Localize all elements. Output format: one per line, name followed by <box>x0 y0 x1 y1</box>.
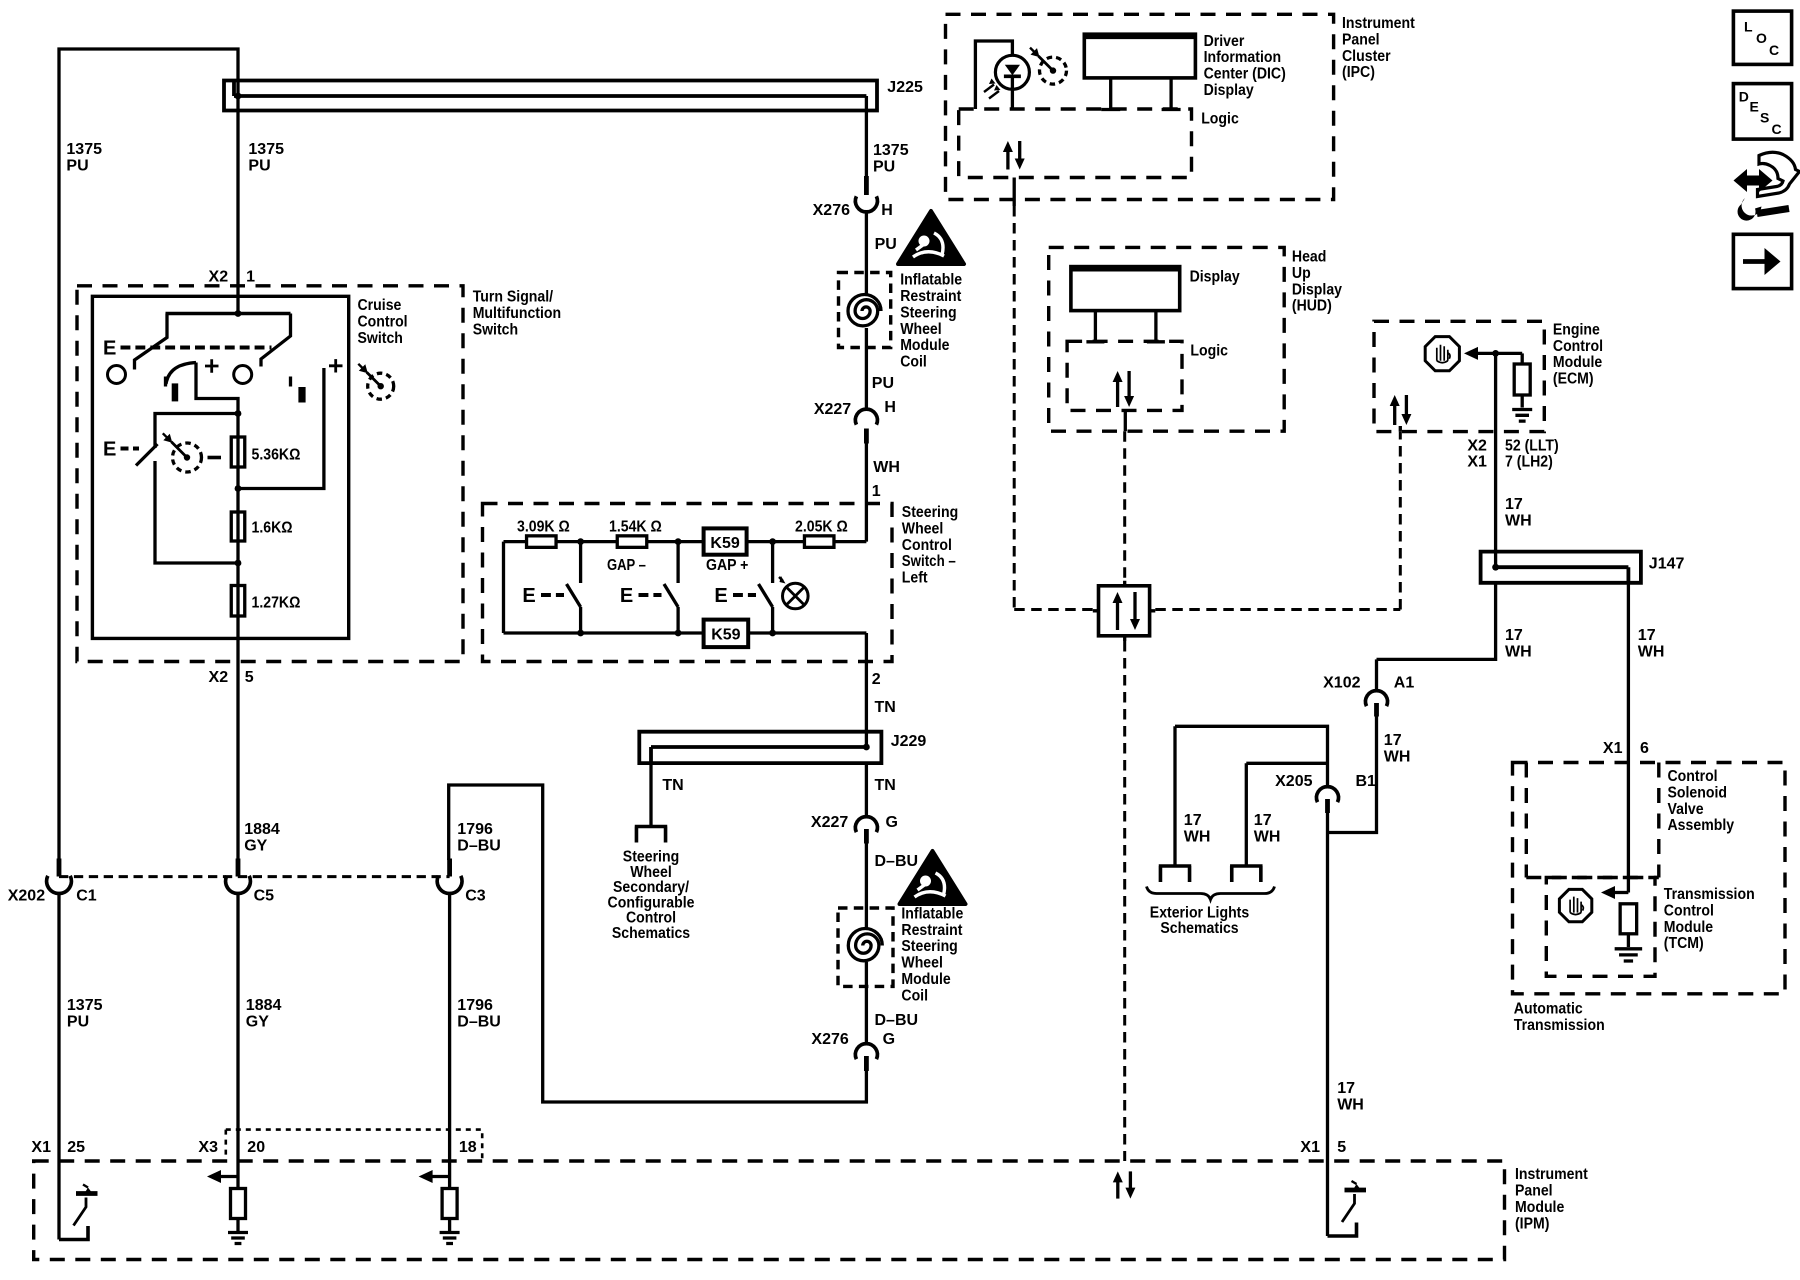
momentary switch (IPM right) <box>1326 1161 1329 1236</box>
switch 1 (set/coast) <box>579 542 582 583</box>
svg-text:X2: X2 <box>209 269 229 286</box>
svg-text:S: S <box>1760 110 1769 126</box>
svg-text:E: E <box>103 439 116 461</box>
connector C1 pin <box>57 859 62 877</box>
serial data line IPC down <box>1013 206 1016 610</box>
svg-text:D–BU: D–BU <box>875 853 919 870</box>
connector C5 pin <box>236 859 241 877</box>
dashed E link (switch 1) <box>541 593 564 597</box>
pull-down resistor (pin 20) <box>231 1189 246 1219</box>
svg-text:2: 2 <box>872 671 881 688</box>
svg-text:Head: Head <box>1292 249 1327 266</box>
svg-text:Logic: Logic <box>1190 343 1228 360</box>
svg-text:TN: TN <box>662 777 683 794</box>
svg-text:Switch: Switch <box>473 321 518 338</box>
junction on J229 <box>863 744 870 751</box>
cruise gauge icon (turn signal area) <box>368 373 394 399</box>
IPM input arrow (pin 18) <box>431 1175 450 1178</box>
svg-text:Up: Up <box>1292 265 1311 282</box>
svg-text:Solenoid: Solenoid <box>1668 784 1728 801</box>
switch 3 (gap +) <box>771 542 774 583</box>
coil spiral (bottom) <box>848 929 882 961</box>
svg-text:Instrument: Instrument <box>1342 15 1415 32</box>
exterior lights feed second line <box>1246 762 1327 765</box>
svg-text:Transmission: Transmission <box>1514 1017 1605 1034</box>
svg-text:17: 17 <box>1505 496 1523 513</box>
svg-text:A1: A1 <box>1394 675 1415 692</box>
stop lamp (hand) icon TCM <box>1559 889 1591 921</box>
svg-text:WH: WH <box>873 459 900 476</box>
cruise gauge icon (in box) <box>173 443 202 472</box>
turn signal/multifunction switch dashed box <box>77 286 463 662</box>
serial data line to IPM <box>1123 641 1126 1161</box>
driver information center display rectangle <box>1084 34 1195 78</box>
svg-text:(ECM): (ECM) <box>1553 371 1594 388</box>
lever arc (set/coast actuator) <box>164 377 167 387</box>
svg-text:K59: K59 <box>710 535 739 552</box>
svg-text:17: 17 <box>1384 732 1402 749</box>
svg-text:X227: X227 <box>814 401 851 418</box>
junction bottom bus a <box>577 630 584 637</box>
serial data junction box <box>1099 586 1150 636</box>
warning triangle (inflatable restraint, top) <box>898 211 964 264</box>
label + (right) <box>329 359 343 372</box>
wire D-BU to lower coil <box>865 844 868 930</box>
svg-text:Module: Module <box>900 337 949 354</box>
wire left side bus link <box>502 542 505 633</box>
connector C3 pin <box>447 859 452 877</box>
serial data arrows (HUD logic) <box>1116 380 1119 407</box>
svg-text:Panel: Panel <box>1342 31 1380 48</box>
svg-text:C3: C3 <box>465 888 486 905</box>
contact bar (mid) <box>172 383 179 401</box>
serial data line HUD down <box>1123 431 1126 586</box>
svg-text:C: C <box>1769 42 1779 58</box>
junction tap b <box>235 485 242 492</box>
junction top bus c <box>769 538 776 545</box>
junction tap c <box>235 560 242 567</box>
svg-text:WH: WH <box>1184 828 1211 845</box>
svg-text:Assembly: Assembly <box>1668 817 1735 834</box>
svg-text:X202: X202 <box>8 888 45 905</box>
serial data line corner to data box <box>1014 608 1098 611</box>
contact circle (left) <box>108 366 126 384</box>
instrument panel cluster (IPC) dashed box <box>946 14 1334 199</box>
wire coil to X276-G <box>865 962 868 1044</box>
HUD logic dashed box <box>1067 341 1182 410</box>
junction on J147 <box>1492 564 1499 571</box>
wire from + contact to resistor tap <box>238 368 324 489</box>
svg-text:C: C <box>1772 121 1782 137</box>
svg-text:PU: PU <box>66 157 88 174</box>
contact tick (right) <box>289 377 292 387</box>
svg-text:Coil: Coil <box>901 987 928 1004</box>
svg-text:Restraint: Restraint <box>901 922 963 939</box>
svg-text:X227: X227 <box>811 814 848 831</box>
wire route X276-G to C3 <box>449 785 867 1102</box>
splice pack J225 bus bar <box>224 81 877 111</box>
switch on/off blade (right) <box>261 314 291 367</box>
svg-text:TN: TN <box>875 777 896 794</box>
LED indicator (cruise lamp) <box>995 55 1029 89</box>
serial data line ECM up <box>1399 432 1402 610</box>
svg-text:Module: Module <box>1664 919 1713 936</box>
junction bottom bus c <box>769 630 776 637</box>
svg-text:Module: Module <box>901 971 950 988</box>
transmission control module (TCM) dashed box <box>1546 878 1655 977</box>
DIC display legs <box>1101 78 1120 110</box>
svg-text:X102: X102 <box>1323 675 1360 692</box>
contact bar (right) <box>298 387 305 403</box>
junction tap a <box>235 410 242 417</box>
svg-text:1375: 1375 <box>66 141 102 158</box>
svg-text:Cruise: Cruise <box>358 297 402 314</box>
svg-text:L: L <box>1744 19 1753 35</box>
resistor 2.05K <box>804 536 834 548</box>
svg-text:Multifunction: Multifunction <box>473 305 561 322</box>
connector C1 cavity <box>47 876 72 894</box>
exterior lights stub wire 1 <box>1173 726 1176 864</box>
connector X227 cavity G <box>855 817 877 833</box>
switch 2 (gap -) <box>676 542 679 583</box>
coil spiral (top) <box>848 295 881 326</box>
svg-text:WH: WH <box>1505 643 1532 660</box>
svg-text:1884: 1884 <box>244 821 280 838</box>
svg-text:Wheel: Wheel <box>902 520 944 537</box>
connector X102 pin A1 <box>1374 703 1379 717</box>
ground (IPM pin 18) <box>440 1233 460 1244</box>
svg-text:Inflatable: Inflatable <box>900 272 962 289</box>
wire top bus of switch <box>504 540 867 543</box>
cruise control switch solid box <box>92 296 348 638</box>
svg-text:Steering: Steering <box>902 504 958 521</box>
connector X227 pin H male pin <box>864 429 869 444</box>
svg-text:Module: Module <box>1515 1199 1564 1216</box>
svg-text:Control: Control <box>1553 338 1603 355</box>
svg-text:E: E <box>522 585 535 607</box>
engine control module (ECM) dashed box <box>1374 321 1544 431</box>
svg-text:Control: Control <box>902 537 952 554</box>
wire ECM output down <box>1494 353 1497 567</box>
svg-text:1: 1 <box>246 269 255 286</box>
icon arrows and wrench <box>1734 169 1773 192</box>
serial data line to ECM <box>1155 608 1400 611</box>
svg-text:17: 17 <box>1254 812 1272 829</box>
svg-text:E: E <box>103 338 116 360</box>
svg-text:Logic: Logic <box>1201 111 1239 128</box>
svg-text:5: 5 <box>1337 1139 1346 1156</box>
connector X227 pin G male pin <box>864 829 869 844</box>
svg-text:2.05K Ω: 2.05K Ω <box>795 519 848 536</box>
serial data arrows (junction box) <box>1116 601 1119 630</box>
svg-text:WH: WH <box>1384 748 1411 765</box>
svg-text:C5: C5 <box>254 888 275 905</box>
svg-text:X1: X1 <box>31 1139 51 1156</box>
svg-text:17: 17 <box>1505 627 1523 644</box>
connector X227 cavity H <box>855 409 877 425</box>
svg-text:Driver: Driver <box>1204 33 1245 50</box>
svg-text:Display: Display <box>1190 269 1240 286</box>
svg-text:1.6KΩ: 1.6KΩ <box>252 520 293 537</box>
svg-text:J147: J147 <box>1649 556 1685 573</box>
serial data arrows (IPM) <box>1116 1180 1119 1198</box>
relay K59 (top) <box>704 528 747 554</box>
connector X3 dotted box <box>226 1130 482 1159</box>
TCM input arrow <box>1613 891 1628 894</box>
wire HUD logic to box edge <box>1124 410 1127 431</box>
svg-text:D: D <box>1739 89 1749 105</box>
svg-text:1.27KΩ: 1.27KΩ <box>252 595 301 612</box>
junction bottom bus b <box>675 630 682 637</box>
svg-text:18: 18 <box>459 1139 477 1156</box>
resistor 1.27K <box>231 586 245 617</box>
svg-text:1375: 1375 <box>248 141 284 158</box>
svg-text:C1: C1 <box>76 888 97 905</box>
svg-text:(IPM): (IPM) <box>1515 1215 1549 1232</box>
svg-text:Control: Control <box>358 313 408 330</box>
svg-text:52 (LLT): 52 (LLT) <box>1505 437 1559 454</box>
svg-text:X276: X276 <box>811 1031 848 1048</box>
svg-text:PU: PU <box>873 158 895 175</box>
svg-text:Inflatable: Inflatable <box>901 905 963 922</box>
dashed E link (switch 3) <box>733 593 756 597</box>
svg-text:25: 25 <box>67 1139 85 1156</box>
svg-text:Turn Signal/: Turn Signal/ <box>473 289 554 306</box>
connector X276 cavity G <box>855 1044 877 1060</box>
svg-text:GY: GY <box>246 1013 269 1030</box>
svg-text:G: G <box>886 814 898 831</box>
svg-text:7 (LH2): 7 (LH2) <box>1505 454 1553 471</box>
svg-text:17: 17 <box>1337 1080 1355 1097</box>
svg-text:Coil: Coil <box>900 354 927 371</box>
control solenoid valve assembly dashed box <box>1526 763 1659 878</box>
svg-text:D–BU: D–BU <box>457 838 501 855</box>
wire resistor to ground (pin 18) <box>448 1219 451 1232</box>
wire J147 left leg to X102 <box>1377 583 1496 660</box>
svg-text:PU: PU <box>67 1013 89 1030</box>
svg-text:Schematics: Schematics <box>1160 920 1238 937</box>
dashed E linkage (lower) <box>121 447 140 451</box>
exterior lights stub wire 2 <box>1245 763 1248 864</box>
svg-text:J225: J225 <box>887 79 923 96</box>
ECM input arrow <box>1476 352 1522 355</box>
svg-text:Schematics: Schematics <box>612 925 690 942</box>
inflatable restraint steering wheel module coil (bottom) dashed box <box>838 908 893 986</box>
HUD display legs <box>1086 311 1104 342</box>
wire X102 down <box>1328 717 1377 833</box>
warning triangle (inflatable restraint, bottom) <box>900 851 966 904</box>
svg-text:6: 6 <box>1640 740 1649 757</box>
resistor 3.09K <box>527 536 557 548</box>
HUD display rectangle <box>1071 267 1180 311</box>
svg-text:1796: 1796 <box>457 997 493 1014</box>
svg-text:Steering: Steering <box>901 938 957 955</box>
svg-text:Restraint: Restraint <box>900 288 962 305</box>
svg-text:1884: 1884 <box>246 997 282 1014</box>
svg-text:(TCM): (TCM) <box>1664 935 1704 952</box>
svg-text:Valve: Valve <box>1668 801 1704 818</box>
svg-text:K59: K59 <box>711 627 740 644</box>
wire cruise chain vertical <box>236 414 239 859</box>
svg-text:17: 17 <box>1638 627 1656 644</box>
svg-text:5.36KΩ: 5.36KΩ <box>252 447 301 464</box>
svg-text:X3: X3 <box>198 1139 218 1156</box>
svg-text:Wheel: Wheel <box>900 321 942 338</box>
wire J225 to X276 <box>865 96 868 178</box>
svg-text:Automatic: Automatic <box>1514 1001 1583 1018</box>
wire 1884 GY C5 to IPM <box>236 894 239 1162</box>
switch resume/accel blade (left) <box>135 314 168 370</box>
svg-text:GAP –: GAP – <box>607 557 646 574</box>
wire to X102 <box>1375 659 1378 690</box>
svg-text:(HUD): (HUD) <box>1292 298 1332 315</box>
ground (ECM) <box>1512 410 1532 422</box>
connector X205 cavity B1 <box>1317 787 1339 803</box>
svg-text:Display: Display <box>1204 82 1254 99</box>
automatic transmission dashed box <box>1513 763 1786 994</box>
serial data arrows (IPC logic) <box>1006 150 1009 170</box>
wire loop to on/off switch <box>155 414 238 449</box>
svg-text:WH: WH <box>1638 643 1665 660</box>
wire WH into steering wheel control switch <box>865 444 868 542</box>
wire top bar (cruise) <box>166 312 291 315</box>
label + (mid) <box>205 359 219 372</box>
svg-text:X1: X1 <box>1300 1139 1320 1156</box>
connector C5 cavity <box>226 876 251 894</box>
svg-text:J229: J229 <box>891 733 927 750</box>
svg-text:Control: Control <box>1664 902 1714 919</box>
connector X276 pin G male pin <box>864 1056 869 1071</box>
splice pack J229 bus bar <box>639 732 881 763</box>
resistor (TCM) <box>1620 904 1637 934</box>
svg-text:X276: X276 <box>813 202 850 219</box>
svg-text:GY: GY <box>244 838 267 855</box>
svg-text:E: E <box>620 585 633 607</box>
relay K59 (bottom) <box>704 620 749 648</box>
svg-text:B1: B1 <box>1356 773 1377 790</box>
wire resistor to ground (ECM) <box>1521 395 1524 408</box>
svg-text:Center (DIC): Center (DIC) <box>1204 66 1286 83</box>
splice pack J147 bus bar <box>1481 552 1641 583</box>
svg-text:Steering: Steering <box>900 304 956 321</box>
svg-text:Switch –: Switch – <box>902 553 956 570</box>
svg-text:Cluster: Cluster <box>1342 48 1391 65</box>
svg-text:PU: PU <box>875 236 897 253</box>
ground (TCM) <box>1615 949 1643 961</box>
svg-text:H: H <box>881 202 893 219</box>
wire X205 to IPM <box>1326 813 1329 1161</box>
cruise gauge icon (IPC) <box>1040 57 1067 84</box>
svg-text:D–BU: D–BU <box>457 1013 501 1030</box>
IPM input arrow (pin 20) <box>219 1175 238 1178</box>
wire 1796 D-BU C3 to IPM <box>448 894 451 1162</box>
svg-text:WH: WH <box>1505 512 1532 529</box>
svg-text:3.09K Ω: 3.09K Ω <box>517 519 570 536</box>
connector X102 cavity A1 <box>1365 691 1387 707</box>
svg-text:X1: X1 <box>1603 740 1623 757</box>
junction ECM <box>1492 350 1499 357</box>
svg-text:17: 17 <box>1184 812 1202 829</box>
indicator lamp (circle-X) <box>783 583 809 609</box>
svg-text:TN: TN <box>875 699 896 716</box>
icon LOC box <box>1733 11 1791 64</box>
svg-text:Engine: Engine <box>1553 321 1600 338</box>
wire PU to coil box <box>865 213 868 295</box>
svg-text:Control: Control <box>1668 768 1718 785</box>
resistor (ECM) <box>1514 364 1530 395</box>
pull-down resistor (pin 18) <box>442 1189 457 1219</box>
svg-text:Information: Information <box>1204 49 1282 66</box>
serial data stub in ECM <box>1399 426 1402 432</box>
dashed E link (switch 2) <box>639 593 662 597</box>
svg-text:Module: Module <box>1553 354 1602 371</box>
svg-text:1375: 1375 <box>67 997 103 1014</box>
svg-text:1375: 1375 <box>873 142 909 159</box>
icon DESC box <box>1733 84 1791 140</box>
wire bottom bus of switch <box>504 631 867 634</box>
svg-text:E: E <box>1750 99 1759 115</box>
connector X276 cavity H <box>855 196 877 212</box>
svg-text:G: G <box>883 1031 895 1048</box>
svg-text:X1: X1 <box>1467 454 1487 471</box>
wire TN from switch to J229 <box>865 633 868 747</box>
wire to resistor (pin 18) <box>448 1161 451 1189</box>
connector C3 cavity <box>437 876 462 894</box>
wire TN J229 to X227-G <box>865 763 868 816</box>
svg-text:Switch: Switch <box>358 330 403 347</box>
svg-text:E: E <box>714 585 727 607</box>
svg-text:1: 1 <box>872 483 881 500</box>
wire 1375 PU drop to cruise switch through J225 <box>236 81 239 314</box>
wire logic to IPC edge <box>1013 178 1016 207</box>
svg-text:PU: PU <box>872 375 894 392</box>
resistor 1.54K <box>617 536 647 548</box>
dashed E linkage (upper) <box>121 346 272 350</box>
connector X276 pin H male pin <box>864 176 869 195</box>
contact circle (right) <box>234 366 252 384</box>
wire resistor to ground (TCM) <box>1627 934 1630 947</box>
svg-text:WH: WH <box>1254 828 1281 845</box>
ECM pull-up resistor path <box>1521 353 1524 364</box>
inflatable restraint steering wheel module coil (top) dashed box <box>839 273 891 348</box>
svg-text:Left: Left <box>902 570 928 587</box>
wire to resistor (pin 20) <box>236 1161 239 1189</box>
svg-text:Transmission: Transmission <box>1664 886 1755 903</box>
wire coil to X227 <box>865 328 868 409</box>
svg-text:Panel: Panel <box>1515 1183 1553 1200</box>
svg-text:WH: WH <box>1337 1096 1364 1113</box>
svg-text:1.54K Ω: 1.54K Ω <box>609 519 662 536</box>
head up display (HUD) dashed box <box>1049 247 1285 431</box>
IPC logic dashed box <box>959 109 1192 178</box>
ground (IPM pin 20) <box>228 1233 248 1244</box>
wire 1375 PU C1 to IPM <box>57 894 60 1162</box>
off-page stub (steering wheel secondary) <box>635 827 668 843</box>
resistor 5.36K <box>231 437 245 467</box>
svg-text:PU: PU <box>248 157 270 174</box>
off-page stub exterior light 1 <box>1159 866 1192 882</box>
svg-text:(IPC): (IPC) <box>1342 64 1375 81</box>
LED indicator frame wire <box>975 41 1012 109</box>
resistor 1.6K <box>231 512 245 541</box>
junction X2-1 at top bar <box>235 310 242 317</box>
off-page stub exterior light 2 <box>1230 866 1263 882</box>
junction top bus a <box>577 538 584 545</box>
svg-text:5: 5 <box>245 669 254 686</box>
wire TN stub to steering wheel secondary schematics <box>649 763 652 825</box>
svg-text:H: H <box>884 399 896 416</box>
wire resistor to ground (pin 20) <box>236 1219 239 1232</box>
